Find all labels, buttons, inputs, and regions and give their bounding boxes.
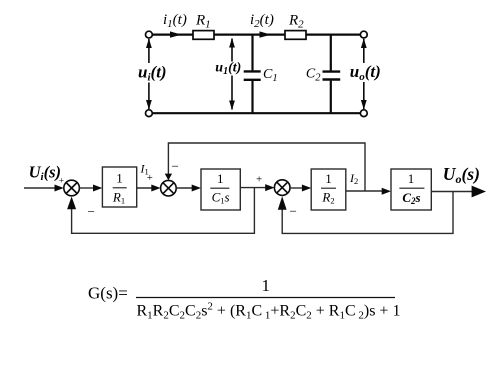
wire: feedback from output to S3 (bottom loop 2) bbox=[278, 192, 453, 234]
current arrow i1(t) bbox=[163, 12, 187, 38]
block 1/C2s bbox=[391, 169, 431, 210]
wire: feedback from I2 node to S2 (top loop) bbox=[165, 143, 365, 191]
block 1/C1s bbox=[201, 169, 240, 210]
wire: bottom rail bbox=[151, 112, 362, 114]
wire: output with large arrow bbox=[431, 186, 486, 198]
wire: block 1/C1s to S3 bbox=[240, 184, 274, 191]
wire: S3 to block 1/R2 bbox=[290, 185, 311, 192]
svg-text:uo(t): uo(t) bbox=[350, 62, 381, 83]
formula G(s) bbox=[88, 276, 400, 321]
wire: C2 branch lower bbox=[330, 81, 332, 114]
wire: C2 branch upper bbox=[330, 35, 332, 71]
terminal output bottom bbox=[360, 110, 367, 117]
svg-text:G(s)=: G(s)= bbox=[88, 284, 128, 303]
wire: C1 branch lower bbox=[251, 81, 253, 113]
svg-text:u1(t): u1(t) bbox=[215, 61, 241, 78]
svg-text:1: 1 bbox=[217, 171, 224, 186]
svg-text:+: + bbox=[256, 173, 262, 185]
wire: C1 branch upper bbox=[251, 35, 253, 71]
terminal input bottom bbox=[146, 110, 153, 117]
summing junction S2 bbox=[161, 180, 177, 196]
wire: top rail bbox=[151, 33, 362, 35]
svg-text:ui(t): ui(t) bbox=[138, 63, 167, 84]
svg-text:i1(t): i1(t) bbox=[163, 12, 187, 30]
svg-text:1: 1 bbox=[262, 276, 271, 295]
svg-text:Uo(s): Uo(s) bbox=[443, 164, 480, 186]
terminal output top bbox=[360, 31, 367, 38]
resistor R1 bbox=[193, 13, 214, 40]
voltage arrow uo(t) bbox=[350, 39, 381, 110]
wire: block 1/R1 to S2 bbox=[137, 185, 161, 192]
block 1/R1 bbox=[102, 167, 136, 207]
svg-text:−: − bbox=[88, 204, 95, 219]
summing junction S3 bbox=[274, 180, 290, 196]
voltage arrow u_i(t) bbox=[137, 39, 167, 110]
svg-text:1: 1 bbox=[325, 171, 332, 186]
wire: block 1/R2 to block 1/C2s bbox=[346, 188, 391, 195]
capacitor C1 bbox=[244, 67, 278, 84]
voltage arrow u1(t) bbox=[214, 38, 241, 110]
svg-text:+: + bbox=[59, 177, 64, 187]
current arrow i2(t) bbox=[250, 12, 274, 38]
terminal input top bbox=[146, 31, 153, 38]
wire: input into S1 bbox=[24, 185, 64, 192]
wire: S2 to block 1/C1s bbox=[176, 185, 201, 192]
block 1/R2 bbox=[311, 169, 346, 210]
svg-text:1: 1 bbox=[408, 171, 415, 186]
svg-text:+: + bbox=[147, 173, 153, 184]
svg-text:Ui(s): Ui(s) bbox=[29, 163, 61, 184]
wire: S1 to block 1/R1 bbox=[79, 185, 102, 192]
svg-text:1: 1 bbox=[116, 171, 123, 186]
resistor R2 bbox=[285, 13, 306, 40]
svg-text:−: − bbox=[290, 204, 297, 219]
wire: feedback from u1 node to S1 (bottom loop 1) bbox=[67, 188, 254, 234]
summing junction S1 bbox=[64, 180, 80, 196]
capacitor C2 bbox=[306, 66, 340, 83]
svg-text:−: − bbox=[172, 159, 179, 174]
svg-text:i2(t): i2(t) bbox=[250, 12, 274, 30]
